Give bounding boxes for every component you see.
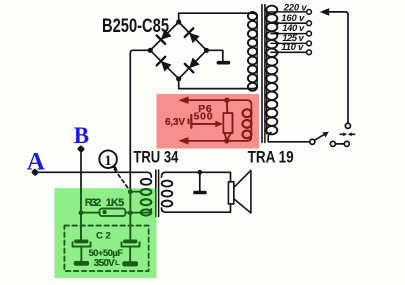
circuit black layer [31, 5, 355, 272]
green highlight region [55, 188, 157, 278]
red highlight region [157, 94, 260, 149]
circuit red-tinted layer [31, 5, 355, 272]
svg-text:110 v: 110 v [281, 42, 304, 53]
circuit green-tinted layer [31, 5, 355, 272]
svg-text:B250-C85: B250-C85 [102, 15, 169, 37]
svg-text:TRU 34: TRU 34 [133, 149, 179, 167]
svg-text:TRA 19: TRA 19 [248, 149, 294, 167]
svg-text:B: B [74, 123, 89, 148]
svg-text:220 v: 220 v [283, 2, 308, 13]
svg-text:A: A [27, 148, 45, 175]
